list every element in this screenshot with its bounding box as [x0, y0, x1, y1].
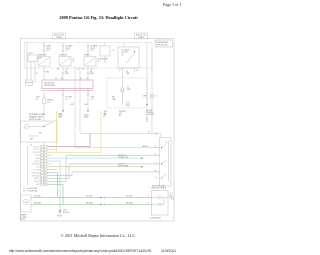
svg-text:PNL DIM: PNL DIM: [32, 164, 39, 166]
headlamp switch box: [21, 121, 58, 142]
connector tick yellow x101: [100, 111, 102, 113]
arrow end x88: [87, 110, 89, 113]
pin stubs right switch extra: [155, 155, 160, 172]
svg-text:FLASH: FLASH: [34, 169, 40, 172]
connector cluster left: [26, 80, 33, 83]
svg-text:86: 86: [82, 68, 84, 70]
label wire x63: [66, 96, 73, 100]
svg-text:LO BEAM: LO BEAM: [31, 171, 39, 174]
misc wire gauge labels: [36, 69, 130, 75]
svg-text:DK GRN: DK GRN: [34, 203, 42, 205]
svg-text:HDLP: HDLP: [58, 117, 62, 119]
row 4 pins: [40, 154, 47, 156]
connector tick x63: [62, 94, 64, 96]
connector C124: [121, 88, 124, 90]
svg-text:OFF: OFF: [30, 138, 33, 140]
fuse F1: [43, 45, 45, 47]
svg-text:HDLP: HDLP: [84, 117, 88, 119]
wire pink bus: [42, 90, 93, 92]
relay K4 headlamp relay box: [118, 47, 139, 68]
svg-text:ORN 0.8: ORN 0.8: [142, 146, 148, 148]
wire feed vertical x124 top: [123, 43, 125, 48]
label mid cyan wire: [118, 155, 128, 159]
wire fuse F2 to relay K2: [62, 52, 64, 57]
relay K3: [84, 57, 96, 67]
svg-text:BLK 0.8: BLK 0.8: [63, 212, 69, 214]
wire x63 connector down: [62, 95, 64, 111]
svg-text:PPL: PPL: [46, 71, 49, 73]
row cell pin numbers: [41, 145, 46, 186]
wire x152 connector down to node row: [151, 98, 153, 134]
wire into lamp switch module top: [160, 134, 162, 138]
connector ticks x147: [146, 94, 148, 98]
lamp beam arrows: [169, 192, 176, 197]
wire relay K3 to module box: [87, 66, 89, 80]
ground G101 symbol: [59, 209, 61, 211]
label module pins: [55, 78, 88, 80]
label small relay: [100, 48, 114, 60]
svg-text:B6: B6: [119, 115, 121, 117]
label relay K1: [38, 55, 47, 57]
label relay K4: [125, 49, 129, 53]
svg-text:C2: C2: [104, 115, 106, 117]
wire row 13 green up to switch pin: [47, 155, 160, 181]
wire relay K4 down to connector C124: [122, 72, 124, 88]
label park switch: [29, 53, 43, 60]
wire x35 down: [34, 62, 36, 81]
svg-text:C: C: [41, 152, 42, 154]
label end x63: [58, 114, 63, 118]
svg-text:LT GRN: LT GRN: [126, 196, 133, 198]
wire row 8 tan long: [47, 166, 141, 168]
svg-text:DRL: DRL: [36, 158, 39, 160]
label cluster mid right 2: [119, 111, 126, 117]
relay K4 switch arm: [127, 53, 135, 63]
row 6 label: [34, 161, 39, 163]
wire x152 from fuse block label down: [151, 48, 153, 95]
wire x31 down: [30, 62, 32, 81]
wire fuse feed vertical x44: [43, 43, 45, 46]
switch contact dot: [43, 126, 44, 127]
svg-text:13: 13: [44, 181, 46, 183]
svg-text:http://www.ondemand5.com/wds/r: http://www.ondemand5.com/wds/re/common/l…: [9, 249, 152, 253]
svg-text:0.5: 0.5: [66, 99, 68, 101]
switch arm: [44, 123, 50, 127]
svg-text:IGN 1: IGN 1: [29, 53, 33, 55]
tick wire x44: [43, 70, 45, 72]
svg-text:TURN SIG / MULTI: TURN SIG / MULTI: [151, 187, 167, 189]
connector tick yellow x56.5: [55, 111, 57, 113]
label component x44: [47, 99, 54, 103]
wire vertical x147: [146, 43, 148, 95]
wire small relay stubs: [104, 43, 106, 63]
svg-text:PRK LP: PRK LP: [33, 146, 39, 148]
wire x88 connector down: [87, 95, 89, 111]
pin labels right switch: [155, 146, 157, 178]
label right switch box: [151, 187, 167, 189]
label sensor lower wire: [34, 203, 42, 205]
arrow row 5 cyan: [141, 157, 144, 159]
relay K4 coil circles: [122, 50, 124, 52]
wire row 12 green up to switch pin: [47, 164, 160, 179]
label node bus: [148, 131, 150, 133]
label yellow wire left: [59, 113, 63, 115]
sensor circle: [23, 199, 29, 205]
row 4 label: [35, 155, 39, 157]
label connector C152: [156, 95, 158, 97]
component box park switch top-left: [26, 43, 160, 172]
row 9 pins: [40, 169, 47, 171]
wire yellow vertical x101: [100, 112, 102, 152]
wire row 9 tan short: [47, 169, 57, 171]
label block left of x44: [36, 96, 40, 100]
row 8 pins: [40, 166, 47, 168]
label relay K4 pins: [119, 70, 138, 72]
arrow row 8 tan: [141, 166, 144, 168]
svg-text:P: P: [41, 184, 42, 186]
row 8 label: [36, 167, 40, 169]
wire row 1 purple: [47, 146, 90, 148]
svg-text:11/9/2011: 11/9/2011: [161, 249, 176, 253]
svg-text:85: 85: [80, 78, 82, 80]
svg-text:DK GRN: DK GRN: [86, 203, 94, 205]
row 2 label: [33, 149, 39, 151]
wire purple vertical x90: [89, 134, 91, 147]
fuse F2: [62, 45, 64, 47]
row 5 pins: [40, 157, 47, 159]
wire high beam feed green horizontal: [63, 204, 152, 206]
svg-text:E: E: [155, 146, 156, 148]
wire low beam feed green horizontal: [58, 197, 152, 199]
label HOT AT ALL TIMES right box: [135, 33, 148, 39]
svg-text:SP100: SP100: [57, 215, 62, 217]
label high beam wire left: [86, 203, 94, 205]
wire fuse feed vertical x63: [62, 43, 64, 46]
wire switch down to connector rows: [43, 142, 45, 147]
switch internals mid: [162, 160, 167, 164]
label splice S124: [126, 102, 130, 106]
row 5 label: [36, 158, 39, 160]
wire pink stub x88: [87, 89, 89, 96]
label under headlamp box: [150, 216, 161, 219]
label sensor upper wire: [34, 196, 41, 198]
label low beam wire right: [126, 196, 133, 198]
svg-text:INST LP: INST LP: [33, 152, 39, 154]
svg-text:30: 30: [55, 78, 57, 80]
arrow end x63: [62, 110, 64, 113]
svg-text:0.5: 0.5: [146, 121, 148, 123]
svg-text:Page 1 of 1: Page 1 of 1: [163, 2, 182, 7]
svg-text:11: 11: [44, 175, 46, 177]
lamp symbol outside: [169, 195, 172, 198]
svg-text:LT GRN: LT GRN: [34, 196, 41, 198]
svg-text:FUSE BLOCK: FUSE BLOCK: [156, 45, 168, 47]
svg-text:LOW RLY: LOW RLY: [59, 55, 68, 57]
label sensor box: [21, 214, 28, 221]
label box underhood fuse block: [155, 40, 173, 47]
svg-text:LO/HI BEAM: LO/HI BEAM: [150, 216, 161, 219]
svg-text:DIM A: DIM A: [34, 177, 40, 180]
svg-text:87: 87: [119, 70, 121, 72]
node bus y133.5: [80, 133, 161, 135]
svg-text:C1: C1: [34, 81, 36, 83]
svg-text:FOG LP: FOG LP: [33, 149, 39, 151]
svg-text:0.5: 0.5: [36, 99, 38, 101]
label cluster mid right 1: [104, 111, 107, 117]
label wire x88: [91, 95, 95, 100]
connector C152: [151, 94, 154, 96]
svg-text:B: B: [41, 149, 42, 151]
switch symbol circle: [24, 124, 29, 129]
svg-text:C2: C2: [156, 95, 158, 97]
wire row 7 short: [47, 163, 52, 165]
svg-text:C1: C1: [148, 131, 150, 133]
row 10 label: [31, 171, 39, 174]
row 14 pins: [40, 183, 47, 185]
svg-text:87: 87: [73, 61, 75, 63]
row 12 pins: [40, 177, 47, 179]
row 14 label: [36, 184, 39, 186]
svg-text:RUN/CRK: RUN/CRK: [100, 58, 108, 60]
svg-text:L: L: [41, 175, 42, 177]
wire row 11 green up to switch pin: [47, 172, 160, 176]
svg-text:S102: S102: [70, 104, 74, 106]
switch internals lower: [162, 174, 167, 178]
row 3 label: [33, 152, 39, 154]
dashed box body control module: [107, 78, 147, 108]
wire row 3 yellow horizontal: [47, 151, 101, 153]
row 11 pins: [40, 174, 47, 176]
label HOT AT ALL TIMES left: [54, 34, 65, 39]
wire row 10 green to low beam: [47, 173, 58, 198]
label connector C124: [127, 86, 131, 90]
inline connector low beam: [100, 197, 103, 199]
wire x75 relay area down to node: [74, 66, 76, 148]
wire pink stub x63: [62, 89, 64, 96]
svg-text:12: 12: [44, 178, 46, 180]
label HOT AT ALL TIMES left box: [53, 33, 66, 39]
label splice x63: [70, 104, 74, 106]
wire row 6 cyan to ground: [47, 161, 60, 209]
ambient light sensor box: [21, 195, 32, 212]
wire connector C124 down: [122, 92, 124, 105]
svg-text:SWITCH ASM: SWITCH ASM: [29, 118, 41, 121]
label above headlamp box: [152, 184, 165, 187]
svg-text:2008 Pontiac G6 Fig. 33: Headl: 2008 Pontiac G6 Fig. 33: Headlight Circu…: [59, 15, 138, 20]
label fuse F2: [66, 46, 73, 53]
row 12 label: [34, 177, 40, 180]
svg-text:TO IP CLSTR: TO IP CLSTR: [118, 165, 129, 167]
svg-text:TIMES: TIMES: [138, 37, 144, 39]
switch internal bus: [168, 141, 170, 181]
module box headlamp driver: [42, 80, 93, 89]
label mid tan wire: [118, 162, 129, 167]
fuse F3: [87, 45, 89, 47]
label switch OFF: [30, 132, 42, 140]
svg-text:LT GRN: LT GRN: [86, 196, 93, 198]
label high beam wire right: [126, 203, 134, 205]
svg-text:14: 14: [44, 184, 46, 186]
connector tick x88: [87, 94, 89, 96]
svg-text:TO DRL SYS: TO DRL SYS: [118, 157, 128, 159]
label HOT W/ RELAY right: [136, 34, 147, 39]
svg-text:C2: C2: [77, 69, 79, 71]
label under relay K2: [57, 68, 68, 70]
svg-text:C1: C1: [30, 144, 32, 146]
svg-text:87: 87: [98, 61, 100, 63]
row 3 pins: [40, 151, 47, 153]
svg-text:E: E: [41, 158, 42, 160]
svg-text:0.5: 0.5: [91, 99, 93, 101]
wire row 2 short: [47, 148, 57, 150]
label cluster mid right 3: [146, 110, 154, 123]
row 1 label: [33, 146, 39, 148]
wire relay K2 to module box: [62, 66, 64, 80]
switch internal wire: [29, 126, 44, 128]
wire x80 relay area down to node: [79, 66, 81, 134]
component on wire x44: [43, 92, 45, 98]
arrow end x147: [146, 104, 148, 107]
svg-text:RT HEADLAMP: RT HEADLAMP: [152, 184, 165, 187]
row 9 label: [34, 169, 40, 172]
pin labels headlamp: [148, 195, 150, 205]
wire row 14 green to high beam feed: [47, 184, 63, 204]
dashed box underhood fuse block: [25, 43, 153, 69]
label under switch: [30, 144, 32, 146]
svg-text:RET: RET: [36, 184, 39, 186]
label wire x44: [46, 71, 49, 73]
label low beam wire left: [86, 196, 93, 198]
row 7 pins: [40, 163, 47, 165]
svg-text:DK GRN: DK GRN: [126, 203, 134, 205]
row 11 label: [32, 174, 40, 177]
label splice pack: [57, 215, 62, 217]
svg-text:30: 30: [136, 70, 138, 72]
switch pin stub: [50, 122, 53, 124]
svg-text:10: 10: [44, 172, 46, 174]
label wire x152: [143, 95, 147, 97]
svg-text:S103: S103: [84, 104, 88, 106]
row 1 pins: [40, 145, 47, 147]
svg-text:86: 86: [61, 78, 63, 80]
svg-text:HDM RLY: HDM RLY: [38, 55, 47, 57]
label pin feed: [142, 146, 148, 148]
wire fuse F1 to relay K1: [43, 52, 45, 57]
wire sensor upper out: [31, 197, 58, 199]
label block exterior lamps (above switch): [29, 113, 45, 121]
svg-text:F: F: [41, 161, 42, 163]
label relay K3: [84, 55, 90, 57]
wire x27 down: [26, 43, 28, 81]
schematic outer frame: [21, 39, 175, 222]
label under relay K3: [82, 68, 93, 70]
headlamp assembly box right bottom: [152, 191, 169, 216]
lamp filament high: [159, 203, 162, 206]
svg-text:TIMES: TIMES: [56, 37, 62, 39]
label relay K2: [59, 55, 68, 57]
headlamp dimmer switch box right: [160, 138, 172, 187]
relay K4 bottom stubs: [123, 68, 135, 72]
label fuse F1: [47, 46, 52, 53]
inline connector high beam: [100, 204, 103, 206]
svg-text:DRIVER MOD: DRIVER MOD: [44, 85, 56, 87]
wire relay K1 to module box: [43, 66, 45, 80]
label ground G101: [63, 209, 69, 213]
svg-text:87: 87: [86, 78, 88, 80]
lamp filament low: [159, 196, 162, 199]
svg-text:HI RLY: HI RLY: [84, 55, 90, 57]
svg-text:C2 = 10 WAY BLK: C2 = 10 WAY BLK: [23, 189, 38, 192]
row 7 label: [32, 164, 39, 166]
svg-text:A1: A1: [112, 48, 114, 51]
wire gray pin feed y147.6: [75, 147, 160, 149]
label end x88: [84, 114, 89, 118]
wire yellow vertical x56.5: [56, 112, 58, 152]
row 13 pins: [40, 180, 47, 182]
label connector cluster: [34, 81, 36, 83]
svg-text:HI BEAM: HI BEAM: [32, 174, 40, 177]
wire x44 down to switch: [43, 104, 45, 122]
row 6 pins: [40, 160, 47, 162]
svg-text:0.35: 0.35: [47, 102, 50, 104]
relay K2: [59, 57, 71, 67]
label splice x88: [84, 104, 88, 106]
connector bracket: [27, 146, 29, 185]
row 13 label: [34, 181, 40, 183]
switch lower wire: [29, 135, 39, 137]
lamp internal wires: [152, 198, 159, 205]
svg-text:GND 2: GND 2: [34, 161, 39, 163]
label wire x124: [112, 96, 116, 100]
pin stubs into switch box: [155, 147, 160, 149]
svg-text:B+: B+: [36, 73, 38, 75]
wire fuse feed vertical x88: [87, 43, 89, 46]
svg-text:86: 86: [57, 68, 59, 70]
switch internals upper: [162, 144, 167, 148]
wire row 5 cyan long: [47, 157, 141, 159]
wire x147 below connector: [146, 98, 148, 105]
row 2 pins: [40, 148, 47, 150]
wire fuse F3 to relay K3: [87, 52, 89, 57]
svg-text:M: M: [25, 202, 27, 204]
relay K1: [38, 57, 50, 67]
label block under rows: [23, 187, 38, 192]
label yellow wire: [103, 113, 107, 117]
wire sensor lower out: [31, 204, 63, 206]
label fuse F3: [91, 46, 98, 53]
label relay contacts: [73, 59, 100, 63]
label module box: [44, 82, 56, 87]
relay pin ticks K2: [62, 72, 89, 74]
wire row 4 short: [47, 154, 52, 156]
small relay box left of K4: [100, 46, 110, 56]
row 10 pins: [40, 172, 47, 174]
